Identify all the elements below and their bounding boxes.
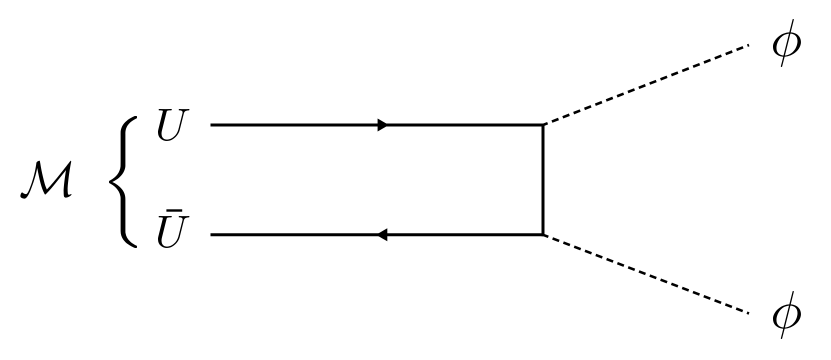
arrowhead on top fermion line, pointing right: [378, 119, 389, 132]
dashed scalar line to top phi: [543, 45, 749, 125]
left curly brace: [109, 116, 137, 248]
wire: top fermion line: [211, 124, 544, 127]
dashed scalar line to bottom phi: [543, 235, 749, 314]
label U-bar (incoming antiquark): [158, 216, 189, 248]
arrowhead on bottom fermion line, pointing left: [376, 228, 387, 241]
amplitude label script-M: [20, 161, 71, 199]
label phi top: [773, 19, 801, 67]
label phi bottom: [773, 291, 801, 339]
overbar of U-bar: [166, 209, 182, 211]
wire: bottom fermion line: [211, 233, 544, 236]
label U (incoming quark): [158, 109, 189, 141]
wire: vertical propagator connecting the two vertices: [542, 124, 545, 237]
